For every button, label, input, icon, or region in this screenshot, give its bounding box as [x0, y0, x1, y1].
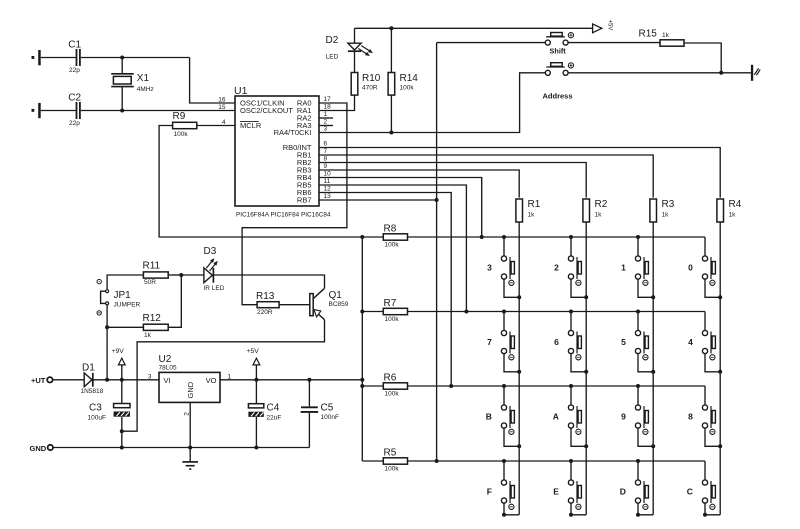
svg-text:X1: X1 [137, 73, 150, 84]
junction key 8 column [718, 444, 722, 448]
pin RA2 stub [319, 117, 333, 119]
svg-text:0: 0 [688, 262, 693, 272]
wire D1 to U2 VI [93, 379, 159, 381]
wire key 9 to column [638, 428, 653, 446]
junction R11/R12/D3 [179, 273, 183, 277]
junction emitter/C3 ground [120, 429, 124, 433]
wire keypad row 2 [407, 311, 705, 313]
wire keypad row 4 [407, 460, 705, 462]
junction rail row 1 [360, 235, 364, 239]
wire D2 cathode to R10 [354, 51, 356, 72]
svg-text:R15: R15 [639, 29, 658, 40]
junction key 3 branch [502, 235, 506, 239]
svg-text:C: C [687, 486, 693, 496]
wire Shift to R15 [568, 42, 660, 44]
svg-text:3: 3 [324, 126, 328, 133]
wire R12 right up to node [168, 275, 181, 327]
wire key D to column [638, 503, 653, 515]
svg-text:MCLR: MCLR [240, 121, 262, 130]
resistor R6 [383, 373, 407, 398]
wire key 3 to column [504, 279, 519, 297]
svg-text:17: 17 [324, 96, 332, 103]
wire R15 to ground net [684, 43, 721, 73]
svg-text:78L05: 78L05 [159, 364, 177, 371]
junction JP1 branch [105, 378, 109, 382]
U1 right pin numbers [324, 96, 332, 200]
power arrow +9V [112, 348, 126, 380]
ground bar left of C1 [32, 50, 41, 65]
svg-text:JUMPER: JUMPER [114, 301, 141, 308]
svg-text:100k: 100k [385, 242, 400, 249]
wire keypad column 3 [652, 223, 654, 515]
pushbutton key 0 [688, 237, 715, 285]
wire RA4 pin 3 to Address switch [319, 73, 545, 133]
svg-text:2: 2 [324, 119, 328, 126]
junction key A column [584, 444, 588, 448]
resistor R12 [143, 313, 169, 339]
pushbutton key 9 [621, 386, 648, 434]
pushbutton Address [543, 63, 574, 101]
svg-text:R2: R2 [595, 199, 608, 210]
junction RB7 / Shift net [435, 198, 439, 202]
ground earth symbol [182, 448, 198, 470]
pushbutton key 1 [621, 237, 648, 285]
wire rail to R7 [362, 311, 383, 313]
wire C1 to OSC1 jog [81, 57, 190, 59]
svg-text:R9: R9 [173, 111, 186, 122]
wire key A to column [571, 428, 586, 446]
wire Shift vertical to keypad row 4 [436, 43, 438, 461]
svg-text:1k: 1k [595, 212, 603, 219]
wire key 8 to column [705, 428, 720, 446]
wire +5V rail vertical [361, 237, 363, 461]
wire ground to C2 [41, 110, 76, 112]
junction RB7 on row 4 [435, 459, 439, 463]
svg-text:3: 3 [487, 262, 492, 272]
svg-text:4: 4 [688, 337, 693, 347]
svg-text:9: 9 [324, 163, 328, 170]
wire GND line [53, 447, 309, 449]
wire key 6 to column [571, 354, 586, 372]
wire keypad row 1 [407, 236, 705, 238]
op-amp U2 78L05 regulator box [148, 354, 232, 416]
svg-text:OSC2/CLKOUT: OSC2/CLKOUT [240, 106, 293, 115]
svg-text:Shift: Shift [550, 46, 567, 55]
svg-text:8: 8 [324, 156, 328, 163]
svg-text:4MHz: 4MHz [137, 86, 154, 93]
svg-text:3: 3 [148, 373, 152, 380]
svg-text:C2: C2 [68, 92, 81, 103]
junction key C column [703, 513, 707, 517]
wire ground to C1 [41, 57, 76, 59]
resistor R14 [388, 73, 418, 96]
junction +9V / C3 [120, 378, 124, 382]
svg-text:D3: D3 [204, 246, 217, 257]
svg-text:F: F [487, 486, 492, 496]
junction key E branch [569, 459, 573, 463]
wire key E to column [571, 503, 586, 515]
junction Address/ground net [719, 71, 723, 75]
junction R12 / JP1 [105, 325, 109, 329]
wire +UT to D1 [53, 379, 85, 381]
svg-text:A: A [553, 411, 559, 421]
junction key B column [517, 444, 521, 448]
polarity marker minus [97, 311, 101, 315]
transistor Q1 [310, 288, 349, 319]
svg-text:220R: 220R [257, 309, 273, 316]
svg-text:D2: D2 [326, 35, 339, 46]
wire R14 top [390, 28, 392, 72]
wire keypad column 4 [719, 223, 721, 515]
wire R9 to MCLR pin 4 [197, 125, 235, 127]
svg-text:6: 6 [554, 337, 559, 347]
junction key 5 column [651, 370, 655, 374]
svg-text:22uF: 22uF [267, 415, 282, 422]
wire rail to R5 [362, 460, 383, 462]
svg-text:R3: R3 [662, 199, 675, 210]
svg-text:6: 6 [324, 141, 328, 148]
svg-text:PIC16F84A PIC16F84 PIC16C84: PIC16F84A PIC16F84 PIC16C84 [236, 211, 331, 218]
pushbutton key 7 [487, 312, 514, 360]
svg-text:R1: R1 [528, 199, 541, 210]
svg-text:RA4/T0CKI: RA4/T0CKI [274, 128, 312, 137]
wire RB6 down to keypad row 3 [319, 193, 451, 387]
wire keypad row 3 [407, 385, 705, 387]
svg-text:D: D [620, 486, 626, 496]
junction key 2 branch [569, 235, 573, 239]
svg-text:R4: R4 [729, 199, 742, 210]
wire key 5 to column [638, 354, 653, 372]
junction C5 on +5V line [307, 378, 311, 382]
wire R11 to JP1 pin 1 [107, 275, 143, 289]
resistor R13 [256, 291, 279, 316]
wire RA1 pin 18 up to R10 [319, 95, 355, 110]
svg-text:C5: C5 [321, 402, 334, 413]
LED D3 IR [204, 246, 225, 292]
svg-text:R10: R10 [362, 73, 381, 84]
capacitor C3 electrolytic [88, 380, 131, 448]
svg-text:GND: GND [186, 381, 195, 398]
junction key F branch [502, 459, 506, 463]
junction key 9 branch [636, 384, 640, 388]
svg-text:100nF: 100nF [321, 414, 339, 421]
svg-text:R8: R8 [384, 224, 397, 235]
svg-text:1k: 1k [528, 212, 536, 219]
pushbutton key A [553, 386, 582, 434]
pushbutton key 5 [621, 312, 648, 360]
junction key 2 column [584, 295, 588, 299]
svg-text:IR LED: IR LED [204, 285, 225, 292]
pushbutton key 3 [487, 237, 514, 285]
svg-text:100k: 100k [385, 466, 400, 473]
junction key A branch [569, 384, 573, 388]
svg-text:1k: 1k [662, 32, 670, 39]
wire key 0 to column [705, 279, 720, 297]
svg-text:470R: 470R [362, 84, 378, 91]
svg-text:1k: 1k [144, 332, 152, 339]
junction RB5 on row 2 [464, 310, 468, 314]
svg-text:15: 15 [218, 104, 226, 111]
svg-text:7: 7 [487, 337, 492, 347]
svg-text:R11: R11 [143, 261, 161, 272]
svg-text:+UT: +UT [31, 376, 46, 385]
power arrow +5V [247, 348, 260, 380]
junction key 3 column [517, 295, 521, 299]
ground bar left of C2 [32, 103, 41, 118]
wire rail to R6 [362, 385, 383, 387]
svg-text:R13: R13 [256, 291, 275, 302]
svg-text:1: 1 [324, 111, 328, 118]
wire key 4 to column [705, 354, 720, 372]
svg-text:Address: Address [543, 91, 573, 100]
junction key F column [502, 513, 506, 517]
junction U2 GND [188, 446, 192, 450]
wire JP1 pin 2 down to +UT line [106, 305, 108, 380]
wire RB5 down to keypad row 2 [319, 185, 466, 312]
svg-text:18: 18 [324, 104, 332, 111]
svg-text:100uF: 100uF [88, 415, 106, 422]
capacitor C4 electrolytic [248, 380, 281, 448]
pushbutton key D [620, 461, 649, 509]
svg-text:22p: 22p [69, 120, 80, 127]
svg-text:RB7: RB7 [297, 196, 312, 205]
wire Q1 emitter return to ground node [122, 320, 325, 432]
crystal X1 [111, 58, 154, 111]
junction RB6 on row 3 [449, 384, 453, 388]
LED D2 [326, 35, 373, 60]
capacitor C1 [68, 40, 81, 74]
wire key 2 to column [571, 279, 586, 297]
junction RB4 on row 1 [480, 235, 484, 239]
capacitor C2 [68, 92, 81, 127]
pushbutton key 8 [688, 386, 715, 434]
polarity marker plus [97, 279, 101, 283]
resistor R9 [173, 111, 197, 138]
junction key 6 branch [569, 310, 573, 314]
wire top +5V rail [355, 27, 593, 29]
wire Address to ground symbol [568, 72, 751, 74]
junction +5V arrow / C4 [254, 378, 258, 382]
wire C2 to OSC2 pin 15 [81, 110, 235, 112]
wire keypad column 2 [585, 223, 587, 515]
svg-text:D1: D1 [82, 362, 95, 373]
wire RB1 to R3 top [319, 155, 653, 198]
wire U2 GND pin [189, 402, 191, 447]
svg-text:R12: R12 [143, 313, 162, 324]
svg-text:B: B [486, 411, 492, 421]
wire key C to column [705, 503, 720, 515]
svg-text:100k: 100k [385, 316, 400, 323]
pushbutton key B [486, 386, 515, 434]
+5V power arrow top right [593, 20, 613, 33]
wire R13 to Q1 base [279, 304, 310, 306]
junction key 1 column [651, 295, 655, 299]
jumper JP1 [101, 290, 141, 309]
wire R11 right [168, 274, 181, 276]
junction key 9 column [651, 444, 655, 448]
svg-text:8: 8 [688, 411, 693, 421]
junction key 1 branch [636, 235, 640, 239]
svg-text:R14: R14 [400, 73, 419, 84]
junction key 4 column [718, 370, 722, 374]
junction key D column [636, 513, 640, 517]
wire jog into OSC1 pin 16 [190, 58, 235, 104]
resistor R2 [583, 199, 608, 222]
capacitor C5 [301, 380, 339, 448]
svg-text:GND: GND [30, 444, 47, 453]
pushbutton key C [687, 461, 716, 509]
svg-text:C3: C3 [89, 402, 102, 413]
pin RA3 stub [319, 125, 333, 127]
wire RB4 down to keypad row 1 [319, 178, 482, 238]
pushbutton key 6 [554, 312, 581, 360]
junction R14 bottom on RA4 line [389, 131, 393, 135]
diode D1 [81, 362, 104, 395]
junction R14 top on +5V rail [389, 26, 393, 30]
wire RB7 to Shift net [319, 199, 437, 201]
svg-text:1: 1 [621, 262, 626, 272]
wire R9 left down to +5V row line [159, 126, 383, 238]
svg-text:2: 2 [554, 262, 559, 272]
svg-text:13: 13 [324, 193, 332, 200]
junction C1/X1 node [120, 56, 124, 60]
resistor R11 [143, 261, 169, 286]
svg-text:1N5818: 1N5818 [81, 388, 104, 395]
svg-text:11: 11 [324, 178, 331, 185]
svg-text:+5V: +5V [607, 20, 613, 31]
wire keypad column 1 [518, 223, 520, 515]
wire RA0 pin 17 to R13 [242, 103, 347, 305]
junction key 5 branch [636, 310, 640, 314]
svg-text:C1: C1 [68, 40, 81, 51]
svg-text:9: 9 [621, 411, 626, 421]
wire key 1 to column [638, 279, 653, 297]
wire RB0 to R4 top [319, 148, 720, 198]
resistor R5 [383, 448, 407, 473]
resistor R15 [639, 29, 685, 47]
junction key B branch [502, 384, 506, 388]
ground symbol right [751, 65, 760, 81]
svg-text:22p: 22p [69, 67, 80, 74]
junction key 0 column [718, 295, 722, 299]
U1 right pin names [274, 99, 312, 205]
junction key 7 column [517, 370, 521, 374]
pushbutton key 4 [688, 312, 715, 360]
svg-text:1k: 1k [729, 212, 737, 219]
junction rail +5V input [360, 378, 364, 382]
resistor R10 [351, 73, 381, 96]
pushbutton key F [487, 461, 515, 509]
junction C2/X1 node [120, 109, 124, 113]
junction C3 on GND line [120, 446, 124, 450]
svg-text:1k: 1k [662, 212, 670, 219]
wire node to D3 anode [181, 274, 204, 276]
pushbutton Shift [437, 33, 574, 56]
wire key F to column [504, 503, 519, 515]
terminal GND [30, 444, 54, 453]
svg-text:+9V: +9V [112, 348, 125, 355]
svg-text:R5: R5 [384, 448, 397, 459]
svg-text:JP1: JP1 [114, 290, 132, 301]
U1 left pin numbers 16 15 4 [218, 97, 226, 127]
svg-text:12: 12 [324, 186, 332, 193]
svg-text:Q1: Q1 [329, 290, 343, 301]
junction key 6 column [584, 370, 588, 374]
U1 left pin names [240, 99, 293, 131]
wire D3 cathode to Q1 collector [213, 275, 324, 288]
wire R12 left [107, 326, 143, 328]
svg-text:LED: LED [326, 54, 339, 61]
wire key 7 to column [504, 354, 519, 372]
svg-text:U2: U2 [159, 354, 172, 365]
junction rail row 3 [360, 384, 364, 388]
junction key D branch [636, 459, 640, 463]
resistor R7 [383, 298, 407, 323]
terminal +UT [31, 376, 53, 385]
resistor R8 [383, 224, 407, 249]
pushbutton key 2 [554, 237, 581, 285]
wire +5V rail to D2 anode [354, 28, 356, 43]
resistor R3 [650, 199, 675, 222]
svg-text:100k: 100k [400, 84, 415, 91]
svg-text:7: 7 [324, 148, 328, 155]
wire RB2 to R2 top [319, 163, 586, 198]
resistor R4 [717, 199, 742, 222]
svg-text:R7: R7 [384, 298, 397, 309]
wire R14 bottom to RA4 line [390, 95, 392, 132]
pushbutton key E [553, 461, 581, 509]
svg-text:E: E [553, 486, 559, 496]
svg-text:10: 10 [324, 171, 332, 178]
svg-text:VI: VI [164, 376, 171, 385]
svg-text:C4: C4 [267, 402, 280, 413]
svg-text:5: 5 [621, 337, 626, 347]
junction C4 on GND line [254, 446, 258, 450]
svg-text:BC859: BC859 [329, 301, 349, 308]
svg-text:100k: 100k [385, 391, 400, 398]
svg-text:VO: VO [206, 376, 217, 385]
wire U2 VO +5V line [220, 379, 362, 381]
svg-text:U1: U1 [234, 85, 248, 97]
junction key E column [569, 513, 573, 517]
wire key B to column [504, 428, 519, 446]
junction key 7 branch [502, 310, 506, 314]
svg-text:50R: 50R [144, 279, 156, 286]
svg-text:R6: R6 [384, 373, 397, 384]
svg-text:16: 16 [218, 97, 226, 104]
svg-text:100k: 100k [174, 131, 189, 138]
wire RB3 to R1 top [319, 170, 519, 198]
junction rail row 2 [360, 310, 364, 314]
op-amp U1 PIC16F84 microcontroller box [234, 85, 331, 218]
resistor R1 [516, 199, 541, 222]
svg-text:+5V: +5V [247, 348, 260, 355]
